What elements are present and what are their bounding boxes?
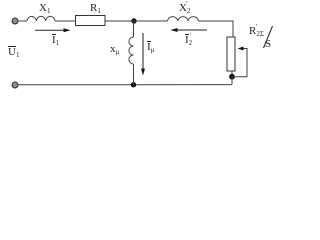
node B junction dot <box>229 74 235 80</box>
current arrow I_mu <box>141 33 145 76</box>
current arrow I2' <box>171 28 208 32</box>
inductor x_mu magnetizing branch <box>129 37 134 64</box>
label R1 <box>90 3 101 14</box>
inductor X2' <box>168 17 199 21</box>
bottom rail wire <box>18 84 232 86</box>
wire node B down to bottom rail <box>231 77 233 85</box>
resistor R'2S/s body <box>227 37 235 71</box>
inductor X1 <box>27 16 55 21</box>
label x_mu <box>110 44 119 55</box>
wire R1 to node A <box>105 20 134 22</box>
wire terminal to X1 <box>18 20 27 22</box>
wire node A down to magnetizing coil <box>133 21 135 37</box>
label U1 voltage <box>8 47 19 58</box>
wire R2 bottom to node B <box>231 71 233 77</box>
terminal input bottom <box>12 82 18 88</box>
wire coil to node C <box>133 64 135 85</box>
label I_mu current <box>147 42 154 53</box>
wire X2' to corner and down to R2 <box>199 21 234 37</box>
label I1 current <box>52 35 59 46</box>
label X2' <box>179 3 190 14</box>
label X1 <box>39 3 50 14</box>
wire node A to X2' <box>134 20 168 22</box>
wire X1 to R1 <box>55 20 76 22</box>
label I2' current <box>185 35 192 46</box>
current arrow I1 <box>35 28 71 32</box>
resistor R1 <box>76 16 106 26</box>
label R'2Sigma over S fraction <box>249 26 264 37</box>
node C junction dot on bottom rail <box>131 82 136 87</box>
node A junction dot <box>131 18 136 23</box>
terminal input top <box>12 18 18 24</box>
wiper arrowhead pointing into resistor <box>238 47 244 51</box>
fraction slash of R'2S/S <box>264 26 273 48</box>
wiper return wire of variable resistor <box>232 49 247 77</box>
